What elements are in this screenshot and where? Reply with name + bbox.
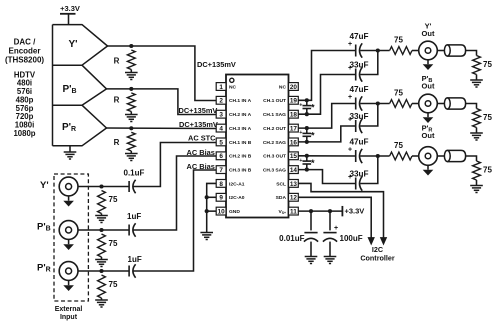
connector output BNC CH.1 <box>419 41 438 64</box>
ground (R P'B) <box>125 115 138 122</box>
svg-text:11: 11 <box>290 209 297 216</box>
svg-text:33uF: 33uF <box>349 170 368 179</box>
U1 pin 10 (GND) <box>216 207 240 215</box>
DAC/Encoder label <box>5 38 44 138</box>
U1 pin 4 (CH.3 IN A) <box>216 124 251 132</box>
svg-text:75: 75 <box>483 113 492 122</box>
ground (output BNC CH.3) <box>423 170 434 176</box>
ground (input BNC 1) <box>63 201 74 207</box>
capacitor 47uF (CH.1 output coupling) <box>348 32 369 58</box>
wire 47uF to output resistor CH.1 <box>360 50 389 52</box>
arrow SDA down <box>368 237 375 245</box>
svg-text:P'B: P'B <box>37 222 51 233</box>
svg-text:10: 10 <box>218 209 226 216</box>
resistor 75 (Y' input termination) <box>98 191 106 214</box>
resistor 75 (CH.2 series output) <box>390 89 419 108</box>
svg-text:P'B: P'B <box>62 84 76 95</box>
U1 pin 14 (CH.3 SAG) <box>263 166 298 174</box>
svg-text:33uF: 33uF <box>349 112 368 121</box>
power +3.3V (Vs+) <box>342 206 364 216</box>
svg-text:CH.1 IN A: CH.1 IN A <box>229 98 252 104</box>
svg-text:Input: Input <box>60 314 78 321</box>
label CH.1 output name <box>422 22 435 38</box>
svg-text:SDA: SDA <box>276 195 287 201</box>
svg-text:Out: Out <box>422 131 435 140</box>
svg-text:External: External <box>55 306 83 313</box>
svg-text:+: + <box>348 65 352 72</box>
capacitor 100uF (supply bulk) <box>323 211 363 256</box>
svg-text:75: 75 <box>394 141 403 150</box>
svg-text:+: + <box>299 102 302 108</box>
capacitor SAG C2a (between pins 17/16) with star <box>299 128 315 142</box>
svg-text:16: 16 <box>290 139 298 146</box>
svg-text:33uF: 33uF <box>349 61 368 70</box>
U1 pin 11 (V<tspan font-size="3.4" dy="1">S+</tspan>) <box>278 207 298 215</box>
node GND junction <box>205 209 209 213</box>
svg-text:R: R <box>114 96 120 105</box>
op-amp U1 THS7313 video amplifier body <box>226 75 289 218</box>
capacitor SAG C3a (between pins 15/14) with star <box>299 156 315 170</box>
U1 pin-1 indicator circle <box>230 78 234 82</box>
svg-text:NC: NC <box>279 84 287 90</box>
svg-text:+: + <box>299 158 302 164</box>
wire SDA to I2C controller <box>298 197 371 238</box>
wire CH.1 SAG (pin 18) to 33uF <box>298 75 355 115</box>
node CH.3 SAG junction <box>305 168 309 172</box>
ground (output BNC CH.1) <box>423 64 434 70</box>
resistor 75 (P'B input termination) <box>98 234 106 257</box>
node P'B/R junction <box>129 87 133 91</box>
svg-text:47uF: 47uF <box>349 32 368 41</box>
capacitor 33uF (CH.3 SAG) <box>348 170 369 191</box>
svg-text:AC STC: AC STC <box>188 134 216 143</box>
wire CH.2 OUT (pin 17) to 47uF <box>298 104 355 129</box>
svg-text:3: 3 <box>219 112 223 119</box>
U1 pin 8 (I2C-A1) <box>216 180 245 188</box>
ground (75 P'R input) <box>95 298 108 307</box>
svg-text:47uF: 47uF <box>349 138 368 147</box>
wire P'B to pin 3 <box>107 89 217 115</box>
wire plug to 75 load CH.1 <box>466 51 477 56</box>
svg-text:NC: NC <box>229 84 237 90</box>
connector J2 input BNC P&#39;B <box>59 221 78 245</box>
U1 pin 9 (I2C-A0) <box>216 193 245 201</box>
svg-text:Controller: Controller <box>360 253 395 262</box>
svg-text:9: 9 <box>219 195 223 202</box>
svg-text:+: + <box>348 94 352 101</box>
svg-text:75: 75 <box>109 195 118 204</box>
svg-text:47uF: 47uF <box>349 85 368 94</box>
U1 pin 20 (NC) <box>279 83 298 91</box>
svg-text:+3.3V: +3.3V <box>345 207 365 216</box>
arrow SCL down <box>380 237 387 245</box>
label I2C Controller <box>360 245 395 262</box>
ground (75 P'B input) <box>95 257 108 267</box>
svg-text:5: 5 <box>219 139 223 146</box>
svg-text:75: 75 <box>483 60 492 69</box>
svg-text:20: 20 <box>290 84 298 91</box>
plug (CH.2 cable) <box>437 98 465 109</box>
svg-text:CH.3 IN B: CH.3 IN B <box>229 168 252 174</box>
svg-text:I2C-A0: I2C-A0 <box>229 195 245 201</box>
svg-text:+: + <box>348 117 352 124</box>
wire 47uF to output resistor CH.3 <box>360 155 389 157</box>
ground (input BNC 3) <box>63 285 74 291</box>
svg-text:(THS8200): (THS8200) <box>5 56 44 65</box>
ground (75 load CH.1) <box>470 80 483 87</box>
svg-text:Out: Out <box>422 29 435 38</box>
U1 pin 17 (CH.2 OUT) <box>263 124 298 132</box>
node Y' input / 75 junction <box>99 184 103 188</box>
node CH.2 output junction <box>376 101 380 105</box>
node CH.3 OUT / SAG-cap junction <box>305 154 309 158</box>
svg-text:R: R <box>114 138 120 147</box>
svg-text:100uF: 100uF <box>340 234 363 243</box>
node P'R input / 75 junction <box>99 269 103 273</box>
svg-text:CH.2 OUT: CH.2 OUT <box>263 126 286 132</box>
U1 pin 16 (CH.2 SAG) <box>263 138 298 146</box>
U1 pin 5 (CH.1 IN B) <box>216 138 252 146</box>
ground (0.01uF) <box>305 257 318 264</box>
svg-text:13: 13 <box>290 181 298 188</box>
resistor R (P'B load) <box>114 93 136 115</box>
svg-text:+: + <box>348 174 352 181</box>
capacitor 47uF (CH.2 output coupling) <box>348 85 369 111</box>
svg-text:R: R <box>114 56 120 65</box>
wire plug to 75 load CH.2 <box>466 104 477 109</box>
wire 33uF join CH.2 <box>360 104 378 127</box>
capacitor SAG C1a (between pins 19/18) with star <box>299 100 315 114</box>
node Vs+ 100uF junction <box>328 209 332 213</box>
wire plug to 75 load CH.3 <box>466 156 477 161</box>
ground (100uF) <box>324 257 337 264</box>
capacitor 33uF (CH.1 SAG) <box>348 61 369 82</box>
svg-text:*: * <box>311 158 315 169</box>
U1 pin 2 (CH.1 IN A) <box>216 96 251 104</box>
capacitor 33uF (CH.2 SAG) <box>348 112 369 133</box>
U1 pin 1 (NC) <box>216 83 236 91</box>
wire CH.3 OUT (pin 15) to 47uF <box>298 155 355 157</box>
resistor 75 (CH.3 series output) <box>390 141 419 160</box>
node Y'/R junction <box>129 44 133 48</box>
connector J3 input BNC P&#39;R <box>59 262 78 286</box>
wire 33uF join CH.3 <box>360 156 378 184</box>
node CH.1 output junction <box>376 48 380 52</box>
plug (CH.1 cable) <box>437 45 465 56</box>
ground (DAC common) <box>64 146 77 159</box>
svg-text:18: 18 <box>290 112 298 119</box>
U1 pin 12 (SDA) <box>276 193 299 201</box>
svg-text:CH.1 IN B: CH.1 IN B <box>229 140 252 146</box>
node CH.1 SAG junction <box>305 112 309 116</box>
wire SCL to I2C controller <box>298 183 383 238</box>
resistor R (Y' load) <box>114 50 136 73</box>
svg-text:CH.3 IN A: CH.3 IN A <box>229 126 252 132</box>
wire CH.2 SAG (pin 16) to 33uF <box>298 126 355 142</box>
svg-text:7: 7 <box>219 167 223 174</box>
capacitor 0.01uF (supply bypass) <box>279 211 318 256</box>
wire 33uF join CH.1 <box>360 51 378 75</box>
wire 0.1uF to pin 5 AC STC <box>133 143 216 187</box>
svg-text:Encoder: Encoder <box>8 47 40 56</box>
svg-text:14: 14 <box>290 167 298 174</box>
ground (75 Y' input) <box>95 214 108 223</box>
wire CH.1 OUT (pin 19) to 47uF <box>298 51 355 101</box>
U1 pin 6 (CH.2 IN B) <box>216 152 252 160</box>
connector J1 input BNC Y&#39; <box>59 177 78 201</box>
svg-text:CH.2 IN A: CH.2 IN A <box>229 112 252 118</box>
svg-text:0.01uF: 0.01uF <box>279 234 304 243</box>
svg-text:DC+135mV: DC+135mV <box>197 60 236 69</box>
svg-text:1080p: 1080p <box>13 129 35 138</box>
svg-text:12: 12 <box>290 195 298 202</box>
U1 pin 3 (CH.2 IN A) <box>216 110 251 118</box>
node CH.2 OUT / SAG-cap junction <box>305 126 309 130</box>
svg-text:SCL: SCL <box>276 181 286 187</box>
svg-text:P'R: P'R <box>37 263 51 274</box>
capacitor 1uF (P'B AC coupling) <box>127 212 141 237</box>
svg-text:+: + <box>348 147 352 154</box>
svg-text:*: * <box>311 130 315 141</box>
ground (R Y') <box>125 73 138 80</box>
svg-text:75: 75 <box>109 239 118 248</box>
label External Input <box>55 306 83 321</box>
svg-text:Out: Out <box>422 81 435 90</box>
svg-text:17: 17 <box>290 126 298 133</box>
wire 1uF to pin 6 AC Bias <box>133 156 216 230</box>
external input dashed box <box>54 174 88 301</box>
wire Y' to pin 2 <box>108 46 217 101</box>
node I2C-A0 junction <box>205 195 209 199</box>
svg-text:8: 8 <box>219 181 223 188</box>
wire P'B input row <box>78 229 129 231</box>
svg-text:75: 75 <box>394 36 403 45</box>
ground (output BNC CH.2) <box>423 117 434 123</box>
node CH.2 SAG junction <box>305 140 309 144</box>
svg-text:CH.1 SAG: CH.1 SAG <box>263 112 286 118</box>
svg-text:Y': Y' <box>68 39 77 50</box>
svg-text:CH.3 OUT: CH.3 OUT <box>263 154 286 160</box>
label CH.2 output name <box>422 74 435 90</box>
svg-text:1uF: 1uF <box>128 255 142 264</box>
connector output BNC CH.2 <box>419 94 438 117</box>
svg-text:4: 4 <box>219 126 223 133</box>
ground (R P'R) <box>125 154 138 161</box>
resistor 75 (CH.2 load) <box>473 109 493 134</box>
svg-text:GND: GND <box>229 209 240 215</box>
svg-text:1: 1 <box>219 84 223 91</box>
svg-text:15: 15 <box>290 153 298 160</box>
ground (U1 address pins) <box>200 233 213 240</box>
wire CH.3 SAG (pin 14) to 33uF <box>298 170 355 184</box>
U1 pin 19 (CH.1 OUT) <box>263 96 298 104</box>
svg-text:DC+135mV: DC+135mV <box>179 120 218 129</box>
svg-text:75: 75 <box>109 280 118 289</box>
U1 pin 15 (CH.3 OUT) <box>263 152 298 160</box>
wire I2C-A1/A0/GND to ground <box>207 183 217 232</box>
wire Y' input row <box>78 186 129 188</box>
ground (75 load CH.3) <box>470 186 483 193</box>
svg-text:0.1uF: 0.1uF <box>124 169 145 178</box>
capacitor 0.1uF (Y' AC coupling) <box>124 169 145 194</box>
U1 pin 13 (SCL) <box>276 180 298 188</box>
resistor 75 (CH.1 load) <box>473 56 493 81</box>
svg-text:DC+135mV: DC+135mV <box>179 106 218 115</box>
capacitor 1uF (P'R AC coupling) <box>128 255 142 278</box>
svg-text:1uF: 1uF <box>127 212 141 221</box>
svg-text:P'R: P'R <box>62 122 76 133</box>
ground (75 load CH.2) <box>470 133 483 140</box>
node CH.3 output junction <box>376 154 380 158</box>
svg-text:I2C-A1: I2C-A1 <box>229 181 245 187</box>
plug (CH.3 cable) <box>437 150 465 161</box>
node P'R/R junction <box>129 126 133 130</box>
resistor 75 (CH.3 load) <box>473 161 493 186</box>
resistor R (P'R load) <box>114 132 136 153</box>
svg-text:CH.2 IN B: CH.2 IN B <box>229 154 252 160</box>
svg-text:+3.3V: +3.3V <box>60 4 80 13</box>
U1 pin 7 (CH.3 IN B) <box>216 166 252 174</box>
svg-text:+: + <box>299 130 302 136</box>
resistor 75 (CH.1 series output) <box>390 36 419 55</box>
DAC output buffers Y' P'B P'R (triangle shapes) <box>53 25 108 146</box>
wire 1uF to pin 7 AC Bias <box>133 170 216 271</box>
node CH.1 OUT / SAG-cap junction <box>305 98 309 102</box>
node P'B input / 75 junction <box>99 228 103 232</box>
wire P'R to pin 4 <box>107 127 217 130</box>
svg-text:*: * <box>311 103 315 114</box>
svg-text:Y': Y' <box>40 180 49 191</box>
wire Vs+ (pin 11) supply <box>298 210 341 212</box>
power +3.3V (DAC supply) <box>60 4 80 25</box>
svg-text:CH.3 SAG: CH.3 SAG <box>263 168 286 174</box>
U1 pin 18 (CH.1 SAG) <box>263 110 298 118</box>
svg-text:75: 75 <box>483 166 492 175</box>
svg-text:6: 6 <box>219 153 223 160</box>
svg-text:DAC /: DAC / <box>14 38 37 47</box>
wire 47uF to output resistor CH.2 <box>360 103 389 105</box>
ground (input BNC 2) <box>63 244 74 250</box>
svg-text:19: 19 <box>290 98 298 105</box>
capacitor 47uF (CH.3 output coupling) <box>348 138 369 164</box>
svg-text:+: + <box>334 225 338 232</box>
connector output BNC CH.3 <box>419 147 438 170</box>
svg-text:2: 2 <box>219 98 223 105</box>
svg-text:+: + <box>348 41 352 48</box>
wire P'R input row <box>78 270 129 272</box>
label CH.3 output name <box>422 124 435 140</box>
resistor 75 (P'R input termination) <box>98 275 106 298</box>
svg-text:75: 75 <box>394 89 403 98</box>
svg-text:CH.1 OUT: CH.1 OUT <box>263 98 286 104</box>
node Vs+ 0.01uF junction <box>309 209 313 213</box>
svg-text:CH.2 SAG: CH.2 SAG <box>263 140 286 146</box>
